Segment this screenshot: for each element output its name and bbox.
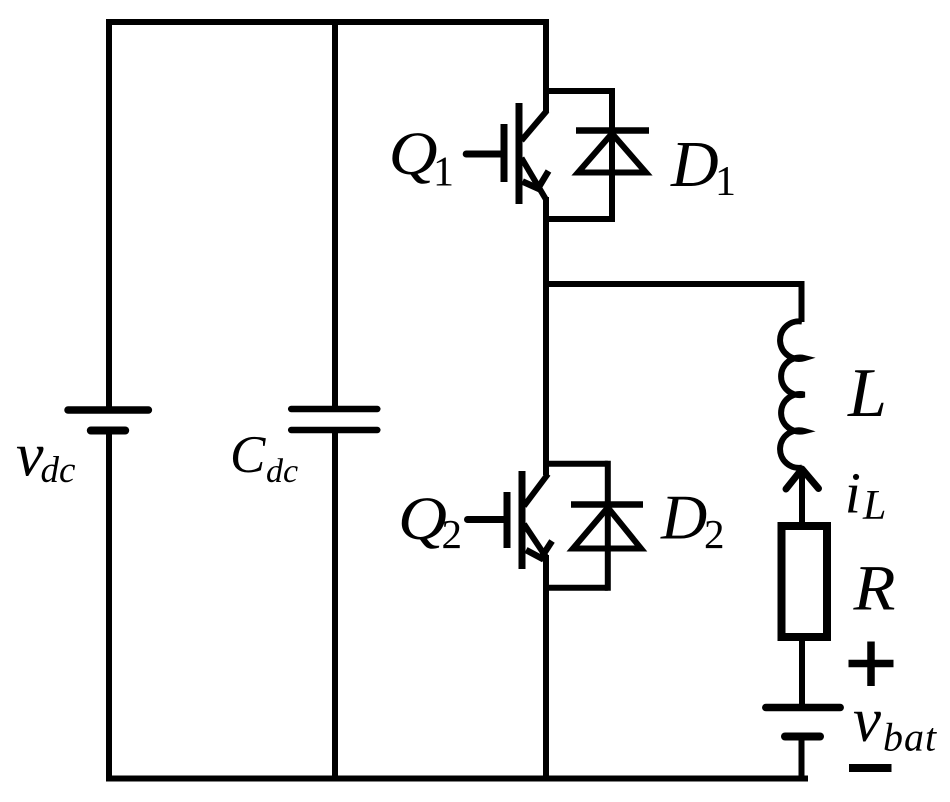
- transistor Q2 emitter arrow: [526, 541, 552, 558]
- wire D2 branch vertical: [605, 461, 611, 591]
- wire D2 loop bottom: [543, 585, 608, 591]
- wire left rail lower: [106, 431, 112, 782]
- svg-text:v: v: [853, 685, 881, 755]
- wire load branch upper: [799, 281, 805, 322]
- svg-text:C: C: [230, 426, 266, 484]
- minus sign of vbat: [849, 764, 892, 772]
- wire bottom bus: [106, 776, 808, 782]
- svg-text:L: L: [862, 483, 886, 529]
- svg-text:1: 1: [715, 159, 736, 205]
- capacitor Cdc top plate: [291, 406, 377, 413]
- plus sign of vbat: [849, 642, 894, 687]
- resistor R: [782, 526, 828, 637]
- label D1: [670, 128, 736, 205]
- label L: [847, 355, 887, 432]
- wire Q1 emitter to midpoint: [543, 197, 549, 287]
- wire arrow shaft: [799, 470, 805, 523]
- label Q1: [389, 121, 454, 196]
- arrow iL current arrow: [786, 469, 819, 489]
- transistor Q2 gate bar: [504, 492, 511, 548]
- battery V2 vbat long plate: [766, 704, 840, 712]
- inductor L: [780, 321, 804, 468]
- transistor Q2 gate lead: [468, 516, 505, 523]
- svg-text:Q: Q: [389, 121, 438, 188]
- svg-text:D: D: [670, 128, 719, 201]
- diode D2 triangle: [573, 508, 641, 549]
- label R: [852, 553, 895, 625]
- diode D2 cathode bar: [571, 501, 643, 508]
- transistor Q1 gate bar: [501, 124, 508, 182]
- wire left rail upper: [106, 19, 112, 409]
- transistor Q1 collector slant: [522, 111, 548, 141]
- label iL: [845, 461, 887, 530]
- svg-text:2: 2: [442, 511, 463, 557]
- svg-text:R: R: [852, 553, 895, 625]
- label Cdc: [230, 426, 298, 490]
- wire capacitor branch upper: [332, 19, 338, 409]
- wire D1 loop top: [543, 88, 612, 94]
- transistor Q2 emitter slant: [524, 524, 546, 557]
- battery V1 vdc long plate: [68, 406, 148, 414]
- wire capacitor branch lower: [332, 430, 338, 781]
- svg-text:2: 2: [704, 511, 725, 557]
- wire D2 loop top: [543, 461, 608, 467]
- svg-text:D: D: [660, 482, 707, 553]
- battery V1 vdc short plate: [91, 427, 125, 435]
- diode D1 cathode bar: [576, 127, 649, 134]
- node midpoint wire to load: [546, 281, 805, 287]
- wire top bus: [106, 19, 549, 25]
- transistor Q1 body bar: [516, 103, 523, 204]
- transistor Q1 emitter arrow: [523, 171, 549, 189]
- svg-text:i: i: [845, 461, 861, 526]
- svg-text:1: 1: [433, 150, 454, 196]
- label vdc: [16, 422, 76, 492]
- transistor Q2 body bar: [519, 471, 526, 569]
- diode D1 triangle: [578, 134, 646, 173]
- transistor Q2 collector slant: [524, 474, 548, 506]
- svg-text:bat: bat: [883, 715, 937, 760]
- wire battery to bottom bus: [799, 737, 805, 782]
- battery V2 vbat short plate: [785, 733, 820, 741]
- wire Q2 midpoint to collector: [543, 281, 549, 475]
- wire resistor to battery: [799, 637, 805, 707]
- wire Q2 emitter to bottom bus: [543, 555, 549, 782]
- label D2: [660, 482, 725, 558]
- wire D1 branch vertical: [609, 88, 615, 222]
- label Q2: [398, 486, 462, 557]
- svg-text:Q: Q: [398, 486, 447, 553]
- capacitor Cdc bottom plate: [291, 427, 377, 434]
- svg-text:L: L: [847, 355, 887, 432]
- wire D1 loop bottom: [543, 216, 612, 222]
- wire Q1 collector: [543, 19, 549, 112]
- svg-text:dc: dc: [266, 453, 298, 490]
- transistor Q1 emitter slant: [522, 158, 547, 200]
- transistor Q1 gate lead: [466, 151, 501, 158]
- svg-text:dc: dc: [41, 450, 77, 491]
- label vbat: [853, 685, 937, 760]
